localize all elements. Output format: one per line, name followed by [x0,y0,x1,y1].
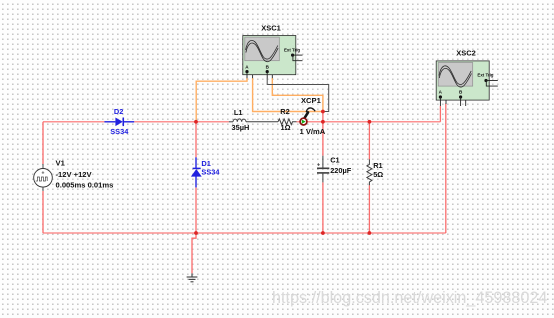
svg-text:C1: C1 [330,155,339,164]
svg-text:R1: R1 [373,161,382,170]
svg-text:Ext Trig: Ext Trig [477,73,493,78]
svg-text:1 V/mA: 1 V/mA [300,127,326,136]
svg-text:SS34: SS34 [201,167,220,176]
svg-text:Ext Trig: Ext Trig [284,47,300,52]
svg-text:L1: L1 [234,108,243,117]
svg-text:1Ω: 1Ω [280,123,290,132]
svg-text:-12V +12V: -12V +12V [56,170,93,179]
svg-text:35µH: 35µH [231,123,249,132]
svg-text:XCP1: XCP1 [301,96,322,105]
svg-text:https://blog.csdn.net/weixin_4: https://blog.csdn.net/weixin_45988024 [272,289,547,307]
svg-text:+: + [42,171,45,177]
svg-text:XSC2: XSC2 [456,49,476,58]
svg-text:D2: D2 [114,107,123,116]
svg-text:220µF: 220µF [330,166,352,175]
svg-text:R2: R2 [280,107,289,116]
svg-text:+: + [317,162,320,168]
svg-text:V1: V1 [56,159,66,168]
svg-text:5Ω: 5Ω [373,170,383,179]
svg-text:0.005ms 0.01ms: 0.005ms 0.01ms [56,181,114,190]
svg-text:SS34: SS34 [110,127,129,136]
svg-text:XSC1: XSC1 [261,23,281,32]
